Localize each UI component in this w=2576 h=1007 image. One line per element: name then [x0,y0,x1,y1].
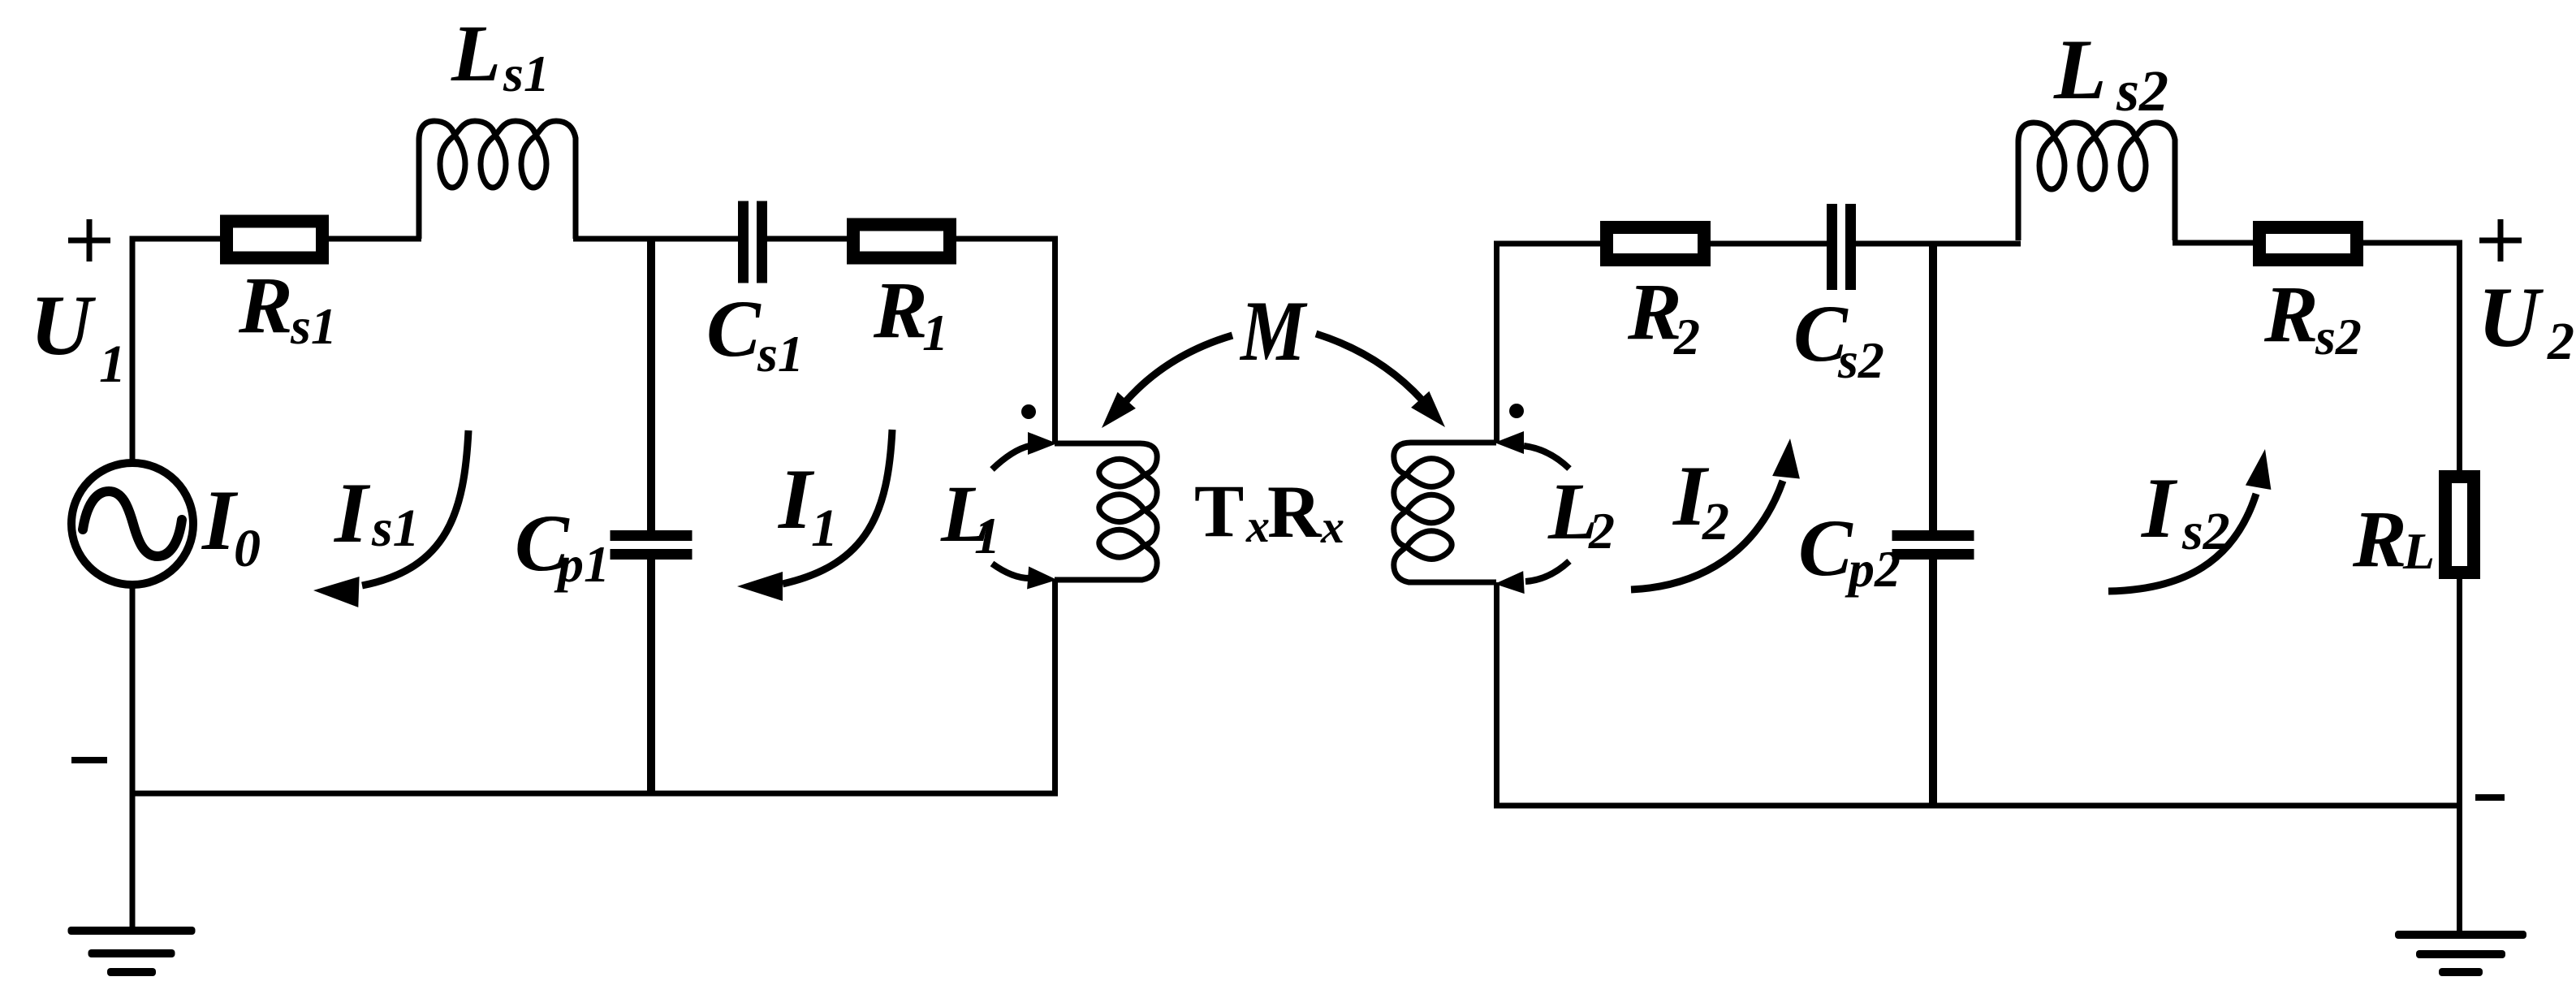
svg-text:U: U [2478,270,2544,365]
svg-text:I: I [777,452,815,547]
svg-text:s1: s1 [503,45,550,102]
svg-text:2: 2 [1702,492,1729,551]
svg-text:1: 1 [974,507,1000,564]
svg-text:2: 2 [2547,312,2574,371]
svg-text:s1: s1 [290,297,337,355]
svg-text:s2: s2 [2116,58,2168,123]
svg-text:x: x [1320,500,1344,553]
svg-text:1: 1 [811,499,838,558]
svg-text:1: 1 [99,335,126,394]
svg-text:R: R [238,260,293,350]
svg-text:C: C [706,283,762,374]
svg-text:2: 2 [1588,502,1615,560]
svg-text:R: R [873,265,928,355]
svg-text:x: x [1245,499,1270,552]
svg-text:I: I [333,465,371,560]
svg-text:2: 2 [1673,308,1700,365]
svg-text:p1: p1 [554,535,610,593]
svg-text:s2: s2 [2315,308,2362,365]
svg-text:s2: s2 [1837,331,1884,389]
svg-text:L: L [2402,522,2435,580]
svg-text:0: 0 [234,519,261,578]
svg-text:R: R [2263,269,2319,359]
svg-text:C: C [1798,503,1853,593]
svg-text:I: I [2140,460,2178,555]
svg-text:p2: p2 [1845,540,1901,598]
svg-text:s2: s2 [2181,502,2230,561]
svg-text:T: T [1194,469,1244,552]
svg-text:R: R [1267,470,1323,553]
svg-text:M: M [1239,283,1308,378]
svg-text:L: L [451,8,501,98]
svg-text:s1: s1 [371,499,420,558]
svg-text:U: U [30,278,97,373]
svg-text:R: R [2352,494,2407,584]
svg-text:s1: s1 [757,325,804,382]
svg-text:1: 1 [922,304,948,361]
svg-text:I: I [201,473,239,568]
svg-text:L: L [2053,22,2107,117]
